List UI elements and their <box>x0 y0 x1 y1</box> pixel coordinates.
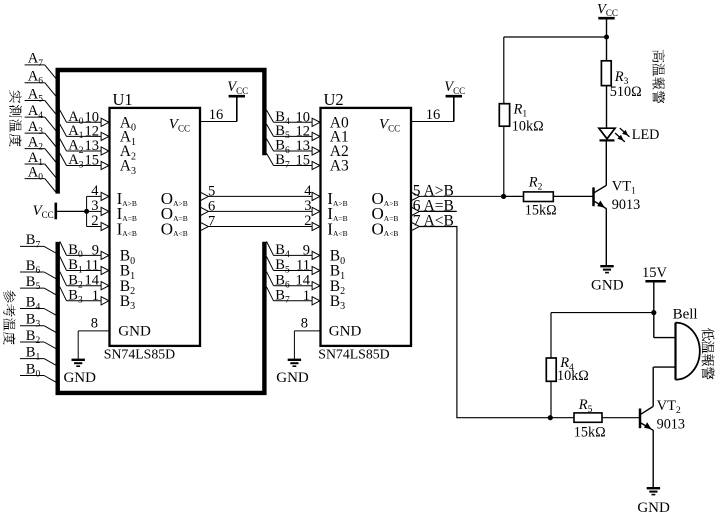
svg-text:LED: LED <box>632 127 660 143</box>
svg-text:GND: GND <box>637 500 670 515</box>
svg-text:9013: 9013 <box>612 197 640 213</box>
svg-text:U1: U1 <box>113 90 133 109</box>
svg-text:6: 6 <box>208 198 215 214</box>
svg-text:8: 8 <box>91 316 98 332</box>
svg-text:GND: GND <box>276 370 309 386</box>
svg-text:9: 9 <box>92 242 99 258</box>
svg-text:SN74LS85D: SN74LS85D <box>318 346 389 361</box>
svg-text:9: 9 <box>303 242 310 258</box>
svg-text:14: 14 <box>85 273 100 289</box>
svg-text:12: 12 <box>296 123 311 139</box>
svg-text:GND: GND <box>63 370 96 386</box>
svg-text:1: 1 <box>303 288 310 304</box>
svg-text:4: 4 <box>91 183 99 199</box>
svg-text:GND: GND <box>591 278 624 294</box>
svg-text:15: 15 <box>85 153 100 169</box>
svg-text:15kΩ: 15kΩ <box>525 202 557 218</box>
svg-text:16: 16 <box>209 107 224 123</box>
svg-text:2: 2 <box>91 213 98 229</box>
svg-text:9013: 9013 <box>657 417 685 433</box>
svg-text:4: 4 <box>304 183 312 199</box>
svg-text:12: 12 <box>85 123 100 139</box>
svg-text:510Ω: 510Ω <box>610 84 642 100</box>
svg-text:10kΩ: 10kΩ <box>557 368 589 384</box>
svg-text:15V: 15V <box>642 265 668 281</box>
svg-text:1: 1 <box>92 288 99 304</box>
svg-text:10kΩ: 10kΩ <box>512 119 544 135</box>
svg-text:GND: GND <box>329 323 362 339</box>
svg-text:16: 16 <box>426 107 441 123</box>
svg-text:A3: A3 <box>330 158 349 175</box>
svg-text:11: 11 <box>85 258 99 274</box>
svg-text:5: 5 <box>208 183 215 199</box>
svg-text:7: 7 <box>208 214 215 230</box>
svg-text:U2: U2 <box>324 90 344 109</box>
svg-text:15: 15 <box>296 153 311 169</box>
svg-text:2: 2 <box>304 213 311 229</box>
svg-text:14: 14 <box>296 273 311 289</box>
svg-text:15kΩ: 15kΩ <box>574 425 606 441</box>
svg-text:11: 11 <box>296 258 310 274</box>
svg-text:GND: GND <box>118 323 151 339</box>
svg-text:8: 8 <box>301 316 308 332</box>
svg-text:3: 3 <box>91 198 98 214</box>
svg-text:3: 3 <box>304 198 311 214</box>
svg-text:Bell: Bell <box>673 306 698 322</box>
svg-text:SN74LS85D: SN74LS85D <box>104 346 175 361</box>
